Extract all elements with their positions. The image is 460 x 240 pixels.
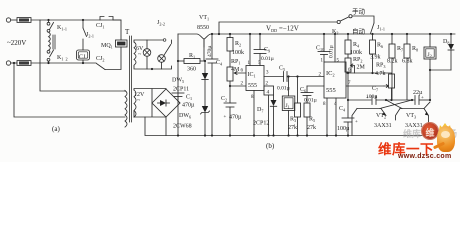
12V loop [134,89,166,118]
svg-text:DW6: DW6 [179,113,191,120]
svg-text:CJ1: CJ1 [96,23,104,30]
core K1 [53,35,55,49]
svg-text:5: 5 [337,59,340,64]
svg-text:MQ1: MQ1 [101,43,113,50]
zener DW6 [201,106,210,137]
svg-text:470µ: 470µ [182,103,195,109]
contact K1-1 [47,20,53,32]
svg-text:2M: 2M [357,65,366,71]
svg-text:RP1: RP1 [231,59,240,66]
svg-text:~: ~ [137,98,141,104]
resistor R7 [385,33,395,101]
wire top 220V [31,19,121,21]
svg-text:+: + [355,120,358,125]
svg-text:自动: 自动 [352,27,366,36]
resistor R2 [227,33,233,67]
relay J1 [282,75,295,136]
svg-text:RP2: RP2 [353,57,362,64]
resistor R6 [370,33,376,74]
svg-text:100µ: 100µ [366,94,377,100]
node J2-1 [82,19,84,21]
watermark [375,118,460,162]
svg-text:C4: C4 [339,106,346,113]
wire mid [376,99,414,101]
capacitor C7 [366,96,376,105]
contact K1-2 [47,50,53,63]
capacitor C4 [206,33,218,137]
svg-text:C7: C7 [372,86,378,93]
svg-text:J1-1: J1-1 [377,25,385,32]
svg-text:R7: R7 [397,46,403,53]
svg-text:100k: 100k [350,50,362,56]
pin2 right IC1 [264,82,274,137]
svg-text:555: 555 [326,87,336,94]
transistor VT2 [352,109,386,136]
wire pin2 IC1 [229,81,246,87]
svg-text:4: 4 [334,102,337,107]
svg-text:R1: R1 [189,53,195,60]
svg-text:27k: 27k [307,125,316,131]
svg-text:+: + [224,115,227,120]
svg-text:2CP12: 2CP12 [253,121,269,127]
contact CJ2 [97,64,106,70]
resistor R1 [177,59,205,64]
svg-text:R8: R8 [412,46,418,53]
bottom rail [145,117,430,136]
svg-text:4: 4 [267,90,270,96]
svg-text:0.01µ: 0.01µ [261,56,274,62]
capacitor C8 [415,96,424,105]
svg-text:R2: R2 [235,41,241,48]
svg-text:C1: C1 [186,95,192,102]
svg-text:C5: C5 [279,66,285,73]
svg-text:4.7k: 4.7k [375,71,386,77]
pin7 IC2 wire [346,81,384,86]
svg-text:RP3: RP3 [376,63,385,70]
contact J2-2 [164,45,170,55]
cross wire B [380,100,412,109]
svg-text:J2-2: J2-2 [157,20,165,27]
resistor R8 [404,33,413,101]
svg-text:IC1: IC1 [248,72,256,79]
fuse FU1 [11,18,31,23]
svg-text:8: 8 [251,95,254,100]
pin1 IC2 + capacitor C10 [318,33,330,64]
svg-text:2CP11: 2CP11 [173,87,189,93]
svg-text:2CW68: 2CW68 [173,124,192,130]
svg-text:100k: 100k [232,50,244,56]
pin5 IC2 [334,33,340,64]
svg-text:手动: 手动 [352,7,366,16]
svg-text:C10: C10 [316,46,324,53]
lamp circuit box [134,40,172,69]
svg-text:J2: J2 [428,52,432,59]
svg-text:VDD =−12V: VDD =−12V [266,25,299,34]
wire bridge out [178,34,180,103]
svg-text:(a): (a) [52,125,60,133]
wire bottom 220V [31,62,96,64]
contact J2-1 [83,20,87,50]
svg-text:R6: R6 [377,43,383,50]
svg-text:8550: 8550 [197,25,209,31]
svg-text:~: ~ [138,52,142,58]
cross wire A [386,100,402,109]
svg-text:J2-1: J2-1 [86,32,94,39]
wire left drop [14,63,125,117]
svg-text:~220V: ~220V [7,39,26,47]
pin4 IC2 [334,98,337,137]
capacitor C1 [172,93,192,137]
svg-text:6.8k: 6.8k [402,59,413,65]
diode DW5 [202,40,208,108]
relay J2 [424,33,436,70]
svg-text:R4: R4 [353,42,360,49]
valve MQ1 [116,40,128,47]
node top K1 [47,19,49,21]
capacitor C2 [224,86,236,137]
svg-text:CJ: CJ [79,55,86,61]
terminal bottom-left [6,61,10,65]
svg-text:C4: C4 [216,60,223,67]
resistor R3 [295,75,301,136]
diode D7 [270,95,276,137]
pot RP3 [384,74,395,101]
svg-text:4M: 4M [231,67,240,73]
wire RP3 top [348,73,392,74]
wire bridge bottom [165,117,167,136]
node lamp [151,68,153,70]
IC1 555 [246,66,264,91]
wire K1 drop [40,20,125,91]
capacitor C4b 100u [342,99,358,137]
svg-text:27k: 27k [288,125,297,131]
svg-text:D7: D7 [257,107,263,114]
transistor VT3 [396,102,431,136]
contact CJ1 [100,17,113,21]
switch K2 manual [340,15,374,23]
svg-text:C9: C9 [264,47,270,54]
multivib wire [348,99,371,101]
wire J2-D8 [429,69,451,101]
svg-text:C2: C2 [221,96,227,103]
fuse FU2 [11,61,31,66]
svg-text:0.01µ: 0.01µ [329,45,335,58]
svg-text:D8: D8 [443,39,449,46]
svg-text:K1-1: K1-1 [57,25,67,32]
svg-text:(b): (b) [266,142,275,150]
svg-text:3: 3 [266,71,269,76]
coil CJ [77,50,90,60]
secondary 12V winding [134,90,136,117]
diode D8 [448,33,454,70]
svg-text:0.01µ: 0.01µ [277,86,290,92]
svg-text:VT1: VT1 [199,15,209,22]
svg-text:IC2: IC2 [326,70,335,78]
svg-text:R5: R5 [309,117,315,124]
svg-text:1: 1 [321,59,324,64]
svg-text:555: 555 [248,83,257,89]
svg-text:C6: C6 [300,87,306,94]
contact J1-1 [371,23,375,34]
svg-text:7: 7 [348,81,351,86]
capacitor C5 [264,72,324,82]
node bottom K1 [47,62,49,64]
wire MQ1 bottom [105,47,121,70]
bridge rectifier [152,89,180,117]
svg-text:K12: K12 [57,55,68,62]
pot RP1 [227,67,246,81]
svg-text:8.2k: 8.2k [387,59,398,65]
transformer T core [130,36,132,122]
IC2 555 [324,62,346,98]
svg-text:360: 360 [187,67,196,73]
pin5 IC1 + C3 [254,33,266,66]
resistor R4 [345,33,351,58]
svg-text:J1: J1 [286,103,290,110]
svg-text:3.9k: 3.9k [370,55,381,61]
lamp H2 [158,55,166,69]
svg-text:22µ: 22µ [413,90,423,96]
secondary 6V winding [134,42,136,66]
pin8 IC1 [251,91,255,137]
wire right [419,99,430,101]
wire CJ bottom [82,60,84,63]
lamp H1 [143,40,151,69]
transistor VT1 [178,34,455,47]
svg-text:CJ2: CJ2 [96,56,104,63]
pot RP2 [345,58,355,100]
VDD branch [218,20,340,35]
primary winding [125,91,127,128]
svg-text:100µ: 100µ [337,126,350,132]
pin6 IC2 wire [346,68,351,73]
svg-text:8: 8 [323,102,326,107]
svg-text:470µ: 470µ [229,115,242,121]
coil K1 [49,32,51,50]
wire MQ1 [113,20,121,40]
capacitor C6 + resistor R5 [301,86,324,137]
node [13,62,15,64]
svg-text:DW5: DW5 [172,78,184,85]
terminal top-left [6,18,10,22]
pin8 IC2 [323,98,328,137]
svg-text:T: T [125,28,130,36]
svg-text:R3: R3 [290,117,296,124]
pin1 IC1 [248,33,252,66]
svg-text:470µ: 470µ [207,46,213,57]
pin3 IC1 wire [266,71,269,76]
svg-text:0.01µ: 0.01µ [304,98,317,104]
